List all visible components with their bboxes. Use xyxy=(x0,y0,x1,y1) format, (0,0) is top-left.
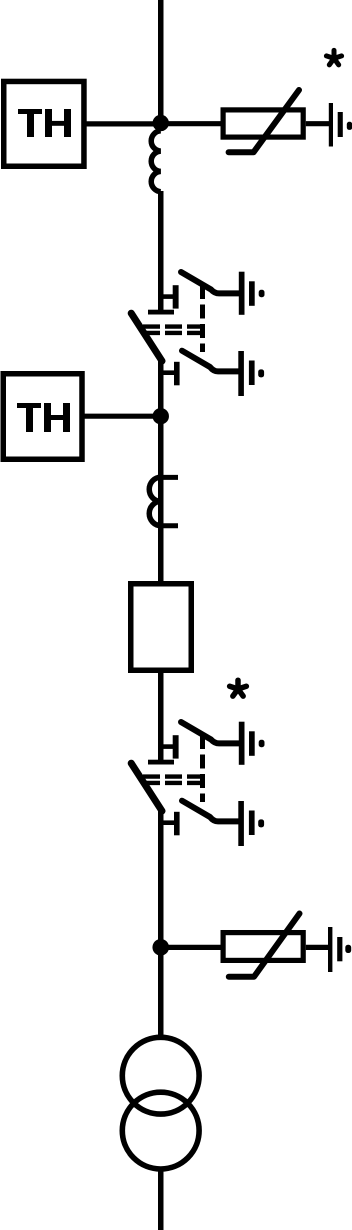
wire: Q1 to node B xyxy=(158,359,164,416)
wire: F1 to ground xyxy=(306,121,330,126)
asterisk marker (top right) xyxy=(326,50,341,64)
wire: TH2 to node B xyxy=(82,414,160,419)
disconnector Q2 blade xyxy=(131,763,162,811)
surge arrester F2 arrow (diagonal with tail) xyxy=(229,914,300,977)
surge arrester F2 (varistor box) xyxy=(223,933,303,961)
ground (QE4) xyxy=(238,801,264,846)
earthing contact (upper, on main line) xyxy=(161,285,179,308)
wire: node C to transformer T1 xyxy=(158,947,164,1040)
wire: L2 to converter block xyxy=(158,524,164,583)
instrument transformer TH2 (box) xyxy=(3,374,82,460)
converter block (rectangle) xyxy=(131,584,192,671)
earthing switch QE2 (lower) blade xyxy=(182,351,239,372)
ground (right of F2) xyxy=(328,927,351,972)
wire: node B through reactor L2 to converter block xyxy=(158,416,164,583)
disconnector Q1 fixed contact T-bar xyxy=(148,310,174,315)
label TH (TH1) xyxy=(18,109,71,137)
label TH (TH2) xyxy=(17,403,70,432)
transformer T1 secondary winding (lower circle) xyxy=(122,1092,199,1169)
disconnector Q2 fixed contact T-bar xyxy=(148,760,174,765)
ground (QE2) xyxy=(238,351,264,396)
transformer T1 primary winding (upper circle) xyxy=(122,1037,199,1114)
tap tick lower (L2) xyxy=(161,523,178,528)
surge arrester F1 (varistor box) xyxy=(223,110,303,137)
mechanical linkage (dashed, Q2 section) xyxy=(143,735,205,802)
reactor L2 (coil with taps, 2 arcs) xyxy=(149,477,161,525)
reactor L1 (coil, 3 arcs) xyxy=(151,131,161,192)
surge arrester F1 arrow (diagonal with tail) xyxy=(229,90,299,152)
wire: node C to surge arrester F2 xyxy=(161,945,222,950)
wire: TH1 to node A xyxy=(84,121,160,126)
wire: Q2 to node C xyxy=(158,809,164,947)
instrument transformer TH1 (box) xyxy=(4,81,84,166)
ground (right of F1) xyxy=(329,103,352,147)
ground (QE3) xyxy=(239,722,265,765)
asterisk marker (middle) xyxy=(230,680,247,696)
earthing contact (upper, Q2 section) xyxy=(161,735,179,758)
earthing contact (lower, on main line) xyxy=(161,362,180,386)
wire: transformer T1 to bottom edge xyxy=(158,1169,164,1230)
node C (junction dot) xyxy=(152,939,169,956)
disconnector Q1 blade xyxy=(131,313,162,361)
mechanical linkage (dashed) xyxy=(143,285,205,352)
earthing switch QE1 (upper) blade xyxy=(181,272,239,293)
ground (QE1) xyxy=(239,272,265,315)
earthing switch QE4 (lower) blade xyxy=(182,801,239,822)
wire: F2 to ground xyxy=(306,945,330,950)
wire: converter block to disconnector Q2 xyxy=(158,668,164,761)
node B (junction dot) xyxy=(153,408,169,424)
node A (junction dot) xyxy=(153,115,169,131)
wire: main feeder vertical, top edge to node A xyxy=(158,0,164,131)
tap tick upper (L2) xyxy=(161,475,178,480)
earthing switch QE3 (upper) blade xyxy=(181,722,239,743)
wire: L1 to disconnector Q1 xyxy=(158,191,164,311)
wire: node A to surge arrester F1 xyxy=(161,121,222,126)
earthing contact (lower, Q2 section) xyxy=(161,812,180,836)
